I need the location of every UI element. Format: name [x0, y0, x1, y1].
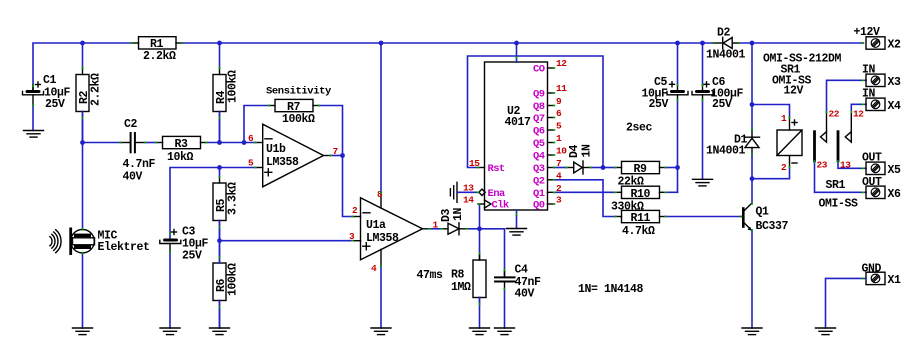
wire U1a pin4 to ground [380, 266, 382, 328]
wire R9 to C5 junction [666, 167, 678, 169]
wire relay- row [752, 167, 790, 179]
svg-text:Sensitivity: Sensitivity [266, 86, 332, 98]
capacitor C6 [692, 43, 744, 111]
svg-text:Rst: Rst [488, 163, 505, 175]
svg-text:Q3: Q3 [533, 163, 545, 175]
svg-text:OMI-SS: OMI-SS [819, 198, 859, 211]
junction R9/C5/R10 [675, 165, 680, 170]
svg-text:Q1: Q1 [756, 206, 770, 219]
ground C6 [693, 179, 713, 186]
node pin3 row wire [220, 240, 353, 242]
svg-text:D4: D4 [568, 144, 581, 158]
transistor Q1 BC337 [741, 204, 789, 234]
svg-text:3: 3 [556, 195, 562, 206]
svg-text:Q9: Q9 [533, 89, 545, 101]
svg-text:BC337: BC337 [756, 220, 789, 233]
svg-text:Q6: Q6 [533, 126, 545, 138]
relay contact 12/13 [838, 112, 851, 161]
svg-text:2: 2 [352, 205, 358, 216]
svg-text:2.2kΩ: 2.2kΩ [143, 50, 176, 63]
junction R7 left [242, 140, 247, 145]
ground C1 [24, 131, 44, 138]
junction R4 bottom [217, 140, 222, 145]
ground MIC [73, 328, 93, 335]
node pin5 row wire [170, 168, 256, 239]
terminal X1 [862, 263, 902, 287]
wire Q1 to R10 [554, 191, 616, 193]
svg-text:Q1: Q1 [533, 188, 545, 200]
wire U1b out to U1a pin2 [343, 156, 353, 217]
junction R2/C2/mic [80, 140, 85, 145]
svg-text:3.3kΩ: 3.3kΩ [227, 182, 240, 215]
junction rail U1a pin8 [379, 41, 384, 46]
junction rail R2 [80, 41, 85, 46]
svg-text:Q4: Q4 [533, 151, 545, 163]
svg-text:25V: 25V [712, 98, 732, 111]
svg-text:Clk: Clk [492, 200, 509, 212]
diode D2 [706, 27, 746, 62]
svg-text:6: 6 [248, 133, 254, 144]
svg-text:Q2: Q2 [533, 175, 545, 187]
wire relay+ row [752, 105, 790, 118]
svg-text:25V: 25V [45, 98, 65, 111]
svg-text:1N4001: 1N4001 [706, 49, 746, 62]
wire C1 to ground [32, 105, 34, 131]
svg-text:X6: X6 [888, 188, 902, 201]
svg-text:C1: C1 [43, 74, 57, 87]
junction relay+/D1 [750, 102, 755, 107]
svg-text:R9: R9 [634, 163, 648, 176]
svg-text:10kΩ: 10kΩ [167, 151, 194, 164]
wire R8 to ground [479, 298, 481, 329]
pin endpoint marks [33, 43, 864, 308]
wire C6 to ground [702, 100, 704, 179]
ground C4 [495, 328, 515, 335]
resistor R7 [269, 99, 319, 126]
svg-text:40V: 40V [515, 288, 535, 301]
svg-text:Q5: Q5 [533, 138, 545, 150]
wire D1 bottom [751, 154, 753, 179]
IC U2 4017 [485, 62, 548, 210]
svg-text:OUT: OUT [862, 152, 882, 165]
svg-text:Elektret: Elektret [98, 241, 150, 254]
4017 GND stub [516, 210, 518, 229]
resistor R8 [451, 254, 486, 305]
svg-text:1N= 1N4148: 1N= 1N4148 [578, 283, 644, 296]
wire junction to Clk pin [479, 204, 481, 229]
svg-text:23: 23 [817, 160, 828, 171]
wire collector [751, 179, 753, 204]
svg-text:GND: GND [862, 263, 882, 276]
wire U1a pin8 to rail [380, 43, 382, 193]
svg-text:LM358: LM358 [266, 156, 299, 169]
svg-text:Ena: Ena [488, 188, 506, 200]
ground C3 [160, 328, 180, 335]
svg-text:25V: 25V [182, 250, 202, 263]
diode D4 [567, 144, 594, 174]
wire junction to R8 [479, 229, 481, 260]
svg-text:X1: X1 [888, 274, 902, 287]
resistor R5 [213, 168, 240, 241]
svg-text:Q7: Q7 [533, 113, 545, 125]
wire R2 bottom to C2/mic [82, 112, 84, 143]
svg-text:Q0: Q0 [533, 200, 545, 212]
svg-text:6: 6 [556, 108, 562, 119]
junction D3/Clk/R8/C4 [477, 226, 482, 231]
svg-text:9: 9 [556, 96, 562, 107]
svg-text:4: 4 [371, 263, 377, 274]
junction rail R4 [217, 41, 222, 46]
junction D4/R9/Rst [601, 165, 606, 170]
svg-text:2.2kΩ: 2.2kΩ [90, 73, 103, 106]
4017 right pins [548, 68, 555, 204]
junction rail 4017 VCC [514, 41, 519, 46]
wire contact23 to X6 [815, 161, 867, 193]
wire C3 to ground [169, 252, 171, 328]
svg-text:CO: CO [533, 64, 545, 76]
svg-text:5: 5 [556, 121, 562, 132]
wire relay column top [751, 43, 753, 105]
svg-text:U1a: U1a [366, 219, 386, 232]
wire D3 to clk junction [467, 228, 480, 230]
wire R11 to Q1 base [666, 216, 742, 218]
wire contact22 to X3 [827, 80, 867, 112]
terminal X6 [862, 176, 901, 201]
4017 VCC stub [516, 43, 518, 62]
svg-text:4.7nF: 4.7nF [123, 158, 156, 171]
svg-text:1: 1 [781, 113, 787, 124]
svg-text:10: 10 [556, 146, 567, 157]
svg-text:14: 14 [463, 195, 474, 206]
ground R6 [210, 328, 230, 335]
wire R10 to junction [666, 191, 678, 193]
diode D3 [440, 207, 467, 234]
terminal X3 [862, 64, 901, 89]
svg-text:IN: IN [862, 64, 876, 77]
resistor R3 [157, 136, 207, 164]
svg-text:OUT: OUT [862, 176, 882, 189]
microphone MIC Elektret [50, 143, 150, 256]
resistor R10 [611, 186, 666, 213]
wire R5 bottom [219, 221, 221, 241]
wire emitter to ground [751, 230, 753, 328]
wire C5 to junction [677, 100, 679, 168]
ground Q1 [742, 328, 762, 335]
svg-text:1: 1 [556, 133, 562, 144]
svg-text:R11: R11 [631, 212, 651, 225]
wire D1 top [751, 105, 753, 130]
4017 left pins [478, 168, 491, 209]
svg-text:X2: X2 [888, 39, 902, 52]
svg-text:22: 22 [829, 109, 840, 120]
svg-text:100kΩ: 100kΩ [227, 263, 240, 296]
capacitor C5 [642, 43, 689, 111]
svg-text:1N4001: 1N4001 [706, 145, 746, 158]
relay contact 22/23 [815, 112, 827, 161]
resistor R6 [213, 241, 240, 328]
terminal X4 [862, 88, 901, 113]
svg-text:X4: X4 [888, 100, 902, 113]
wire MIC to ground [82, 253, 84, 328]
svg-text:47ms: 47ms [417, 269, 444, 282]
junction rail relay column [750, 41, 755, 46]
capacitor C2 [120, 118, 155, 184]
svg-text:4.7kΩ: 4.7kΩ [622, 225, 655, 238]
resistor R4 [213, 43, 240, 143]
diode D1 [706, 130, 760, 158]
svg-text:D2: D2 [717, 27, 731, 40]
wire U1b out to junction [331, 155, 343, 157]
svg-text:2sec: 2sec [626, 122, 653, 135]
svg-text:IN: IN [862, 88, 876, 101]
wire D4 to junction [591, 167, 604, 169]
svg-text:1N: 1N [452, 207, 465, 221]
resistor R1 [132, 37, 182, 63]
wire Q2 to R11 [554, 180, 616, 217]
ground 4017 [507, 229, 527, 236]
junction relay-/collector [750, 176, 755, 181]
wire junction to C4 [480, 229, 505, 277]
svg-text:X3: X3 [888, 76, 902, 89]
junction R5/R6 divider [217, 238, 222, 243]
svg-text:OMI-SS-212DM: OMI-SS-212DM [763, 53, 842, 66]
junction R5 top [217, 165, 222, 170]
wire contact12 to X4 [851, 104, 866, 112]
svg-text:Q8: Q8 [533, 101, 545, 113]
svg-text:R8: R8 [451, 269, 465, 282]
svg-text:2: 2 [781, 162, 787, 173]
wire R6 top [219, 241, 221, 263]
svg-text:4017: 4017 [505, 116, 532, 129]
svg-text:12: 12 [556, 58, 567, 69]
capacitor C1 [23, 74, 71, 111]
wire Q3 to D4 [554, 167, 567, 169]
junction rail C6 [700, 41, 705, 46]
ground X1 [816, 328, 836, 335]
svg-text:100kΩ: 100kΩ [282, 113, 315, 126]
svg-text:C2: C2 [124, 118, 138, 131]
wire junction to R9 [603, 167, 616, 169]
svg-text:SR1: SR1 [826, 179, 846, 192]
svg-text:U1b: U1b [266, 143, 286, 156]
op-amp U1b [256, 124, 331, 187]
wire X1 to ground [826, 278, 867, 328]
svg-text:+12V: +12V [854, 26, 881, 39]
capacitor C4 [495, 264, 541, 301]
wire Rst loop [468, 56, 604, 168]
resistor R9 [616, 161, 666, 188]
capacitor C3 [160, 226, 209, 263]
svg-text:1MΩ: 1MΩ [451, 281, 471, 294]
svg-text:R3: R3 [175, 138, 189, 151]
junction U1b out [340, 153, 345, 158]
svg-text:X5: X5 [888, 164, 902, 177]
svg-text:100kΩ: 100kΩ [227, 70, 240, 103]
svg-text:40V: 40V [123, 171, 143, 184]
ground Ena rotated [450, 182, 457, 202]
op-amp U1a [353, 193, 430, 267]
wire Ena to ground [457, 191, 478, 193]
svg-text:11: 11 [556, 83, 567, 94]
wire contact13 to X5 [838, 161, 866, 169]
ground U1a [371, 328, 391, 335]
svg-text:8: 8 [377, 189, 383, 200]
wire junction down to R10 [677, 168, 679, 193]
svg-text:12V: 12V [784, 85, 804, 98]
wire R6 to ground [219, 301, 221, 329]
svg-text:25V: 25V [649, 98, 669, 111]
resistor R2 [76, 43, 103, 143]
terminal X2 [854, 26, 902, 52]
relay coil SR1 [777, 118, 802, 168]
junction rail C5 [675, 41, 680, 46]
svg-text:LM358: LM358 [366, 232, 399, 245]
svg-text:R10: R10 [631, 188, 651, 201]
svg-text:1N: 1N [581, 144, 594, 158]
resistor R7 loop wires [244, 106, 343, 156]
ground R8 [470, 328, 490, 335]
node pin6 row wire [83, 142, 256, 144]
resistor R11 [616, 210, 666, 238]
wire U1a out to D3 [430, 228, 442, 230]
svg-text:12: 12 [853, 109, 864, 120]
wire +12V rail [33, 43, 863, 90]
terminal X5 [862, 152, 901, 177]
wire C4 to ground [504, 289, 506, 328]
svg-text:C4: C4 [515, 264, 529, 277]
wire R4 bottom [219, 112, 221, 143]
